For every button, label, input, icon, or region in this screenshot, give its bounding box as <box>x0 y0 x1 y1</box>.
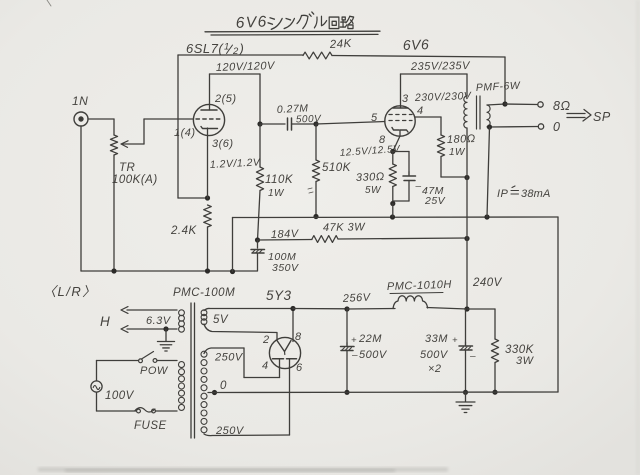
junction 256V node <box>344 306 349 311</box>
svg-text:+: + <box>351 335 357 346</box>
wire jack to volume pot <box>88 118 114 120</box>
title kanji strokes <box>268 12 354 29</box>
PT 5V winding <box>201 310 207 316</box>
ground bus input stage <box>81 270 257 272</box>
PT HV winding 250-0-250 <box>201 351 207 357</box>
wire plate to OPT primary <box>466 74 468 96</box>
svg-text:〈L/R〉: 〈L/R〉 <box>43 284 97 299</box>
svg-text:5W: 5W <box>365 185 382 196</box>
U2 grid dashes row1 <box>389 114 412 116</box>
wire 256V to choke <box>347 308 395 311</box>
PT T1 core lines <box>190 303 192 438</box>
resistor R3 47K 3W <box>312 236 338 243</box>
svg-text:38mA: 38mA <box>521 188 551 200</box>
svg-text:5Y3: 5Y3 <box>266 288 292 303</box>
svg-text:0: 0 <box>220 380 227 392</box>
junction NFB takeoff <box>502 101 507 106</box>
capacitor C2 100M lead <box>257 240 259 248</box>
wire 510K to ground rail <box>315 182 317 217</box>
svg-text:250V: 250V <box>214 352 244 364</box>
U1 cathode lead down <box>207 128 209 198</box>
svg-text:235V/235V: 235V/235V <box>410 60 471 73</box>
heater wire bottom arrow <box>127 328 177 330</box>
wire 5V top lead to B+ rail <box>204 308 293 310</box>
junction C5-ground <box>463 390 468 395</box>
svg-text:PMF-6W: PMF-6W <box>476 80 522 94</box>
wire U2 plate top run <box>401 73 468 75</box>
svg-text:47K 3W: 47K 3W <box>323 221 366 234</box>
U1 cathode bar <box>201 127 218 129</box>
svg-text:110K: 110K <box>265 174 294 186</box>
wire HV top lead <box>204 348 244 354</box>
capacitor C1 0.27M 500V <box>287 118 289 130</box>
junction C4-ground <box>344 390 349 395</box>
wire B+ to 330K corner <box>467 308 495 310</box>
svg-text:–: – <box>351 350 358 361</box>
svg-text:6.3V: 6.3V <box>146 315 172 327</box>
svg-text:PMC-1010H: PMC-1010H <box>387 279 452 293</box>
svg-text:6V6: 6V6 <box>235 13 268 32</box>
svg-text:510K: 510K <box>322 162 352 174</box>
wire 110K to 184V node <box>258 191 261 241</box>
svg-text:+: + <box>452 335 458 346</box>
resistor R-k1 2.4K <box>204 205 212 227</box>
wire U2 screen right <box>415 116 441 118</box>
junction 330K-ground <box>492 390 497 395</box>
wire 5V bottom lead to pin2 <box>204 324 277 341</box>
svg-text:4: 4 <box>262 360 269 372</box>
svg-text:6: 6 <box>296 362 303 374</box>
svg-text:100K(A): 100K(A) <box>112 174 158 186</box>
junction 184V node <box>255 237 260 242</box>
wire 47K to B+ riser <box>338 238 467 239</box>
wire 330K to ground rail <box>494 363 496 393</box>
junction screen-B+ node <box>464 175 469 180</box>
junction 47K-B+ <box>464 236 469 241</box>
wire pot top lead <box>113 119 115 135</box>
U2 cathode bar <box>392 128 408 133</box>
wire primary top to switch <box>157 360 177 362</box>
svg-text:8Ω: 8Ω <box>553 99 570 113</box>
svg-text:×2: ×2 <box>428 363 442 375</box>
svg-text:230V/230V: 230V/230V <box>414 90 472 104</box>
junction choke-B+ riser <box>464 306 469 311</box>
resistor R5 180ohm <box>437 135 444 157</box>
NFB wire top rail right <box>332 56 505 58</box>
junction heater ground <box>163 326 168 331</box>
junction 2.4K-ground <box>205 268 210 273</box>
junction cathode U2-rail <box>390 214 395 219</box>
wire C1 to grid node <box>292 123 317 125</box>
OPT T2 primary winding <box>464 96 467 128</box>
svg-text:350V: 350V <box>272 262 299 274</box>
svg-text:330Ω: 330Ω <box>356 171 385 184</box>
NFB wire to cathode node <box>178 197 207 199</box>
junction pot-ground <box>111 268 116 273</box>
resistor R7 330K 3W <box>491 339 498 363</box>
OPT core lines <box>476 96 478 129</box>
svg-text:1W: 1W <box>268 188 285 199</box>
wire cathode cap top <box>393 151 409 153</box>
resistor R4 510K <box>312 160 319 182</box>
wire 2.4K to ground bus <box>207 227 209 271</box>
wire grid node to U2 grid <box>316 122 385 125</box>
wire U1 plate top run <box>210 73 261 75</box>
speaker arrow <box>567 113 585 115</box>
svg-text:6SL7(: 6SL7( <box>186 41 224 56</box>
wire secondary top lead <box>487 104 505 105</box>
junction grid node 6V6 <box>313 121 318 126</box>
capacitor C2 100M 350V <box>251 249 265 251</box>
svg-text:22M: 22M <box>358 333 382 345</box>
U2 cathode lead <box>393 130 400 151</box>
PT 100V primary winding <box>179 362 185 368</box>
svg-text:5: 5 <box>371 112 378 124</box>
svg-text:3(6): 3(6) <box>212 138 234 150</box>
heater wire top arrow <box>127 309 177 311</box>
svg-text:IP: IP <box>497 188 509 200</box>
svg-text:1W: 1W <box>449 147 466 158</box>
wire 180ohm to B+ node <box>441 176 467 178</box>
svg-text:25V: 25V <box>424 195 446 207</box>
capacitor C3 47M 25V <box>403 175 416 177</box>
terminal 8ohm <box>538 102 543 107</box>
wire fuse to primary bottom <box>156 410 178 412</box>
svg-text:100V: 100V <box>105 390 135 402</box>
wire C5 to ground rail <box>465 350 467 392</box>
triode U1 6SL7 envelope <box>193 104 224 135</box>
junction NFB-cathode <box>205 195 210 200</box>
wire HV bottom to pin6 <box>289 367 291 436</box>
svg-text:4: 4 <box>417 105 424 117</box>
wire wiper to grid of U1 <box>144 118 193 120</box>
svg-text:500V: 500V <box>420 349 449 361</box>
wire screen drop <box>440 117 442 135</box>
wire HV bottom lead <box>204 434 290 436</box>
terminal 0 <box>538 124 543 129</box>
wire node A to C1 <box>260 123 285 125</box>
ground rail output stage <box>233 216 559 219</box>
svg-text:2: 2 <box>262 334 270 346</box>
junction secondary return <box>487 124 492 129</box>
NFB wire left vertical <box>177 55 179 198</box>
svg-text:24K: 24K <box>329 38 353 51</box>
wire 180ohm down <box>440 157 442 178</box>
right edge shading <box>636 0 640 475</box>
U3 filament V <box>277 341 291 352</box>
junction ground bus mid <box>230 269 235 274</box>
junction OPT secondary return-rail <box>484 214 489 219</box>
potentiometer TR 100K(A) <box>110 135 117 155</box>
resistor R-NFB 24K <box>303 52 332 59</box>
wire choke to B+ node <box>427 308 467 310</box>
wire switch to AC left <box>97 360 139 362</box>
paper scratch mark <box>47 0 51 6</box>
junction HV center tap <box>212 390 217 395</box>
wire cap bottom down <box>408 181 410 202</box>
svg-text:256V: 256V <box>342 292 372 306</box>
wire jack sleeve down <box>80 126 82 271</box>
junction U2 cathode node <box>390 149 395 154</box>
wire cap drop <box>408 152 410 176</box>
svg-text:2.4K: 2.4K <box>170 225 197 237</box>
svg-text:FUSE: FUSE <box>134 420 167 432</box>
capacitor C5 33M 500V <box>459 345 473 347</box>
wire cathode node to rail <box>392 204 394 218</box>
U2 plate lead up <box>400 74 402 108</box>
wire B+ rail left <box>293 308 347 310</box>
wire C4 to ground rail <box>346 351 348 393</box>
svg-text:6V6: 6V6 <box>403 36 430 53</box>
svg-text:TR: TR <box>119 162 135 174</box>
wire pot bottom to ground bus <box>113 155 115 271</box>
svg-text:500V: 500V <box>359 349 388 361</box>
rectifier U3 5Y3 envelope <box>269 337 300 368</box>
wire 184V node to 47K <box>258 239 313 242</box>
NFB wire right drop <box>504 57 506 104</box>
svg-text:PMC-100M: PMC-100M <box>173 287 235 299</box>
wire HV top to pin4 <box>243 348 245 378</box>
junction pin8-rail <box>290 306 295 311</box>
resistor R2 110K lead <box>259 124 261 167</box>
ground symbol main stem <box>465 392 467 401</box>
svg-text:240V: 240V <box>472 277 503 289</box>
wire wiper to grid riser <box>143 119 145 144</box>
wire AC to fuse <box>96 392 98 411</box>
svg-text:5V: 5V <box>213 314 229 326</box>
svg-text:180Ω: 180Ω <box>447 133 476 146</box>
junction node A plate <box>257 121 262 126</box>
U2 plate bar <box>393 107 408 109</box>
U1 plate lead up <box>209 74 211 110</box>
resistor R6 330ohm <box>389 164 396 187</box>
capacitor C5 33M lead <box>465 309 467 345</box>
svg-text:–: – <box>415 181 422 192</box>
OPT T2 secondary winding <box>487 105 490 127</box>
U3 plate bars <box>273 358 284 360</box>
resistor R2 110K <box>256 167 263 191</box>
U2 grid dashes row2 <box>389 120 412 122</box>
wire center tap stub <box>208 392 215 394</box>
U1 grid dashes <box>196 118 221 120</box>
choke L1 PMC-1010H <box>393 296 428 309</box>
svg-text:1N: 1N <box>72 94 88 108</box>
pentode U2 6V6 envelope <box>385 106 415 136</box>
fuse F1 <box>137 409 141 413</box>
PT 6.3V heater winding <box>179 310 185 316</box>
wire secondary return drop <box>487 127 490 217</box>
svg-text:0: 0 <box>553 120 560 134</box>
AC source V1 100V <box>91 381 102 392</box>
wire secondary bottom lead <box>489 126 538 129</box>
wire pin8 to B+ rail <box>292 309 294 342</box>
wire OPT primary to B+ node <box>466 128 468 178</box>
ground symbol heater <box>157 341 174 343</box>
junction 510K-ground rail <box>313 214 318 219</box>
capacitor C4 22M 500V <box>341 346 355 348</box>
resistor R6 330ohm lead <box>392 152 394 165</box>
svg-text:POW: POW <box>140 365 169 377</box>
svg-text:1(4): 1(4) <box>174 127 196 139</box>
wire cap to cathode node <box>393 200 409 202</box>
svg-text:H: H <box>100 314 110 329</box>
svg-text:SP: SP <box>593 110 611 124</box>
wire rail right drop <box>557 217 559 392</box>
switch SW POW <box>153 359 157 363</box>
title underline <box>205 30 380 33</box>
svg-text:3: 3 <box>402 93 409 105</box>
wire rail left drop <box>232 218 234 272</box>
wire to 8ohm terminal <box>505 103 538 106</box>
resistor R7 330K lead <box>494 309 496 339</box>
pot wiper arrow <box>122 143 144 145</box>
ground symbol main <box>456 401 475 403</box>
stray pencil mark <box>308 188 313 193</box>
wire AC left drop <box>96 361 98 382</box>
wire 100M to ground bus end <box>257 254 259 272</box>
svg-text:8: 8 <box>295 331 302 343</box>
svg-text:3W: 3W <box>516 355 535 367</box>
input jack J1 <box>74 112 88 126</box>
capacitor C4 22M lead <box>346 309 348 346</box>
svg-text:33M: 33M <box>425 333 448 345</box>
U1 plate bar <box>201 109 217 111</box>
wire 330ohm to node <box>392 187 394 204</box>
scanner edge smudge <box>38 468 448 472</box>
NFB wire top rail left <box>178 54 303 56</box>
svg-text:2(5): 2(5) <box>214 93 237 105</box>
junction cathode bottom node <box>390 201 395 206</box>
resistor R4 510K lead <box>315 124 317 160</box>
heater ground stem <box>165 329 167 341</box>
ground rail PSU <box>215 391 559 394</box>
svg-text:–: – <box>469 351 476 362</box>
svg-text:): ) <box>238 41 245 56</box>
wire plate drop to node A <box>259 74 261 124</box>
wire B+ riser <box>466 178 468 310</box>
svg-text:120V/120V: 120V/120V <box>216 60 276 74</box>
svg-text:250V: 250V <box>215 425 245 437</box>
